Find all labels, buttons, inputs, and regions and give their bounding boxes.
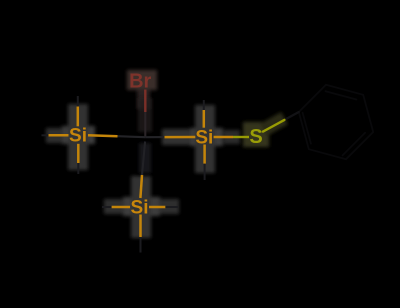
bond C-Br: carbon half: [144, 112, 146, 137]
bond C-SiRight: carbon half: [145, 136, 164, 138]
bottom Si: methyl right (carbon tip): [165, 206, 178, 208]
bond SiRight-S: sulfur half: [233, 136, 249, 138]
jpeg artifact glow: left Si label: [46, 104, 95, 170]
left Si: methyl left (carbon tip): [42, 134, 49, 136]
svg-text:S: S: [249, 126, 262, 148]
bottom Si: methyl left (silicon half): [112, 206, 130, 209]
svg-text:Br: Br: [129, 71, 151, 93]
svg-text:Si: Si: [69, 126, 87, 147]
right Si: methyl up (carbon tip): [203, 100, 205, 110]
bond SiRight-S: silicon half: [214, 136, 233, 139]
left Si: methyl left (silicon half): [49, 134, 69, 137]
bottom Si: methyl left (carbon tip): [102, 206, 112, 208]
svg-text:Si: Si: [195, 127, 213, 148]
bottom Si: methyl down (silicon half): [139, 215, 142, 238]
bottom Si: methyl down (carbon tip): [140, 237, 142, 253]
jpeg artifact glow: S label: [243, 112, 288, 147]
jpeg artifact glow: centre carbon cross: [138, 98, 152, 173]
bond C-SiLeft: carbon half: [118, 136, 146, 137]
right Si: methyl down (silicon half): [203, 145, 206, 164]
wire: S to phenyl ipso carbon (carbon half): [284, 112, 298, 120]
bond C-SiRight: silicon half: [165, 136, 196, 139]
right Si: methyl up (silicon half): [203, 110, 206, 128]
jpeg artifact glow: bottom Si label: [104, 176, 179, 238]
left Si: methyl down (carbon tip): [77, 163, 79, 174]
right Si: methyl down (carbon tip): [204, 164, 206, 180]
jpeg artifact glow: right Si label: [162, 105, 240, 173]
left Si: methyl up (carbon tip): [77, 96, 79, 107]
bond C-SiLeft: silicon half: [88, 134, 118, 137]
bottom Si: methyl right (silicon half): [149, 206, 165, 209]
bond C-SiBottom: carbon half: [142, 142, 145, 176]
svg-text:Si: Si: [131, 197, 149, 218]
bond C-Br: bromine half: [144, 90, 146, 113]
wire: S to phenyl ipso carbon (sulfur half): [263, 120, 284, 132]
jpeg artifact glow: Br label: [127, 70, 157, 109]
benzene ring (phenyl), carbon color nearly black: [299, 85, 373, 159]
bond C-SiBottom: silicon half: [140, 175, 142, 198]
left Si: methyl down (silicon half): [77, 144, 80, 163]
left Si: methyl up (silicon half): [77, 107, 80, 127]
